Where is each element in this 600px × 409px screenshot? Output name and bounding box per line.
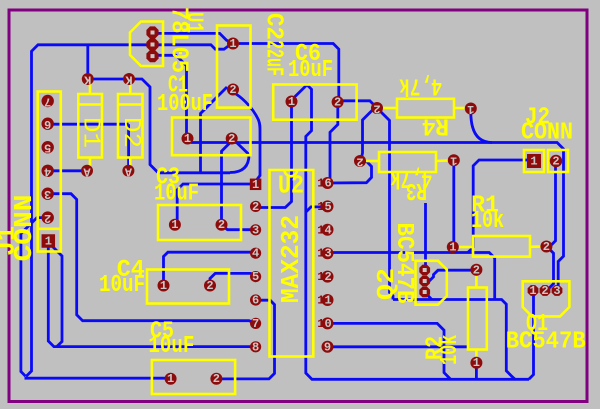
svg-text:2: 2: [44, 211, 51, 225]
svg-text:1: 1: [324, 294, 331, 308]
svg-text:9: 9: [324, 340, 331, 354]
svg-text:1: 1: [317, 270, 324, 284]
svg-text:3: 3: [324, 247, 331, 261]
svg-text:1: 1: [317, 247, 324, 261]
svg-text:2: 2: [356, 155, 363, 169]
svg-text:K: K: [125, 73, 133, 87]
svg-text:1: 1: [45, 235, 52, 249]
svg-text:2: 2: [206, 279, 213, 293]
svg-text:8: 8: [252, 340, 259, 354]
svg-text:1: 1: [317, 294, 324, 308]
svg-text:U2: U2: [278, 171, 304, 201]
svg-text:1: 1: [317, 317, 324, 331]
svg-text:1: 1: [160, 279, 167, 293]
svg-text:5: 5: [44, 141, 51, 155]
svg-text:3: 3: [252, 223, 259, 237]
svg-text:1: 1: [184, 132, 191, 146]
svg-text:2: 2: [213, 372, 220, 386]
svg-text:A: A: [124, 164, 132, 178]
svg-text:10k: 10k: [471, 208, 504, 235]
svg-text:7: 7: [44, 95, 51, 109]
svg-text:2: 2: [473, 263, 480, 277]
svg-text:BC547B: BC547B: [506, 329, 586, 356]
svg-text:K: K: [83, 73, 91, 87]
svg-text:7: 7: [252, 317, 259, 331]
svg-text:2: 2: [229, 83, 236, 97]
svg-text:1: 1: [288, 95, 295, 109]
svg-text:A: A: [83, 164, 91, 178]
svg-text:1: 1: [229, 37, 236, 51]
svg-text:1: 1: [317, 177, 324, 191]
svg-text:2: 2: [543, 240, 550, 254]
svg-text:1: 1: [473, 356, 480, 370]
svg-text:2: 2: [541, 284, 548, 298]
svg-text:1: 1: [167, 372, 174, 386]
svg-text:6: 6: [44, 117, 51, 131]
svg-text:CONN: CONN: [521, 120, 573, 147]
svg-text:4: 4: [44, 164, 51, 178]
svg-text:10uF: 10uF: [154, 181, 199, 208]
svg-text:1: 1: [529, 284, 536, 298]
svg-text:D2: D2: [117, 117, 144, 148]
svg-text:2: 2: [373, 102, 380, 116]
svg-text:3: 3: [44, 187, 51, 201]
svg-text:MAX232: MAX232: [276, 215, 306, 303]
svg-text:C2: C2: [260, 13, 287, 40]
svg-text:2: 2: [218, 218, 225, 232]
svg-text:BC547B: BC547B: [390, 223, 417, 304]
svg-text:6: 6: [324, 177, 331, 191]
svg-text:10uF: 10uF: [288, 57, 333, 84]
svg-text:0: 0: [324, 317, 331, 331]
svg-text:5: 5: [324, 200, 331, 214]
svg-text:D1: D1: [77, 117, 104, 148]
svg-text:10k: 10k: [437, 335, 464, 366]
svg-text:4: 4: [252, 247, 259, 261]
svg-text:1: 1: [317, 223, 324, 237]
svg-text:1: 1: [449, 241, 456, 255]
svg-text:1: 1: [530, 155, 537, 169]
svg-text:2: 2: [552, 155, 559, 169]
svg-text:2: 2: [252, 200, 259, 214]
svg-text:6: 6: [252, 294, 259, 308]
svg-text:R4: R4: [422, 112, 449, 139]
svg-text:4: 4: [324, 223, 331, 237]
svg-text:3: 3: [553, 284, 560, 298]
svg-text:78L05: 78L05: [165, 7, 192, 73]
svg-text:1: 1: [467, 102, 474, 116]
svg-text:100uF: 100uF: [157, 91, 213, 118]
svg-text:1: 1: [317, 200, 324, 214]
svg-text:10uF: 10uF: [99, 272, 145, 299]
svg-text:1: 1: [252, 178, 259, 192]
svg-text:J1: J1: [0, 226, 22, 256]
svg-text:1: 1: [171, 218, 178, 232]
svg-text:2: 2: [324, 270, 331, 284]
svg-text:5: 5: [252, 270, 259, 284]
svg-text:22uF: 22uF: [260, 40, 287, 76]
svg-text:R3: R3: [406, 176, 427, 203]
svg-text:10uF: 10uF: [148, 333, 194, 360]
svg-text:2: 2: [228, 132, 235, 146]
svg-text:4,7k: 4,7k: [399, 72, 442, 99]
svg-text:2: 2: [334, 96, 341, 110]
svg-text:1: 1: [450, 154, 457, 168]
